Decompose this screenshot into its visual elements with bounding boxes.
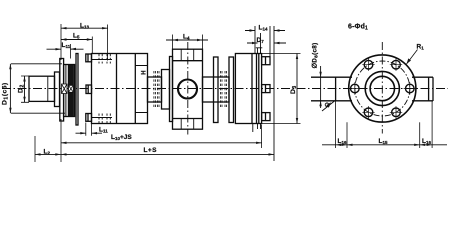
dimension D7	[247, 42, 286, 44]
flange pilot circle	[365, 71, 399, 105]
node yoke plate left	[170, 57, 173, 122]
node main body	[92, 54, 148, 124]
node collar left of yoke	[162, 70, 170, 110]
dimension D2	[24, 76, 26, 102]
bolt hole bottom-right	[392, 108, 401, 117]
bolt hole top-left	[364, 60, 373, 69]
svg-text:L15: L15	[379, 138, 388, 145]
flange bore circle	[370, 76, 394, 100]
bolt hole left	[351, 84, 360, 93]
node yoke ear right	[412, 77, 433, 101]
dimension L+S	[61, 153, 274, 155]
node joint circle	[178, 80, 197, 99]
dimension L2	[35, 153, 61, 155]
node flange pair cluster	[64, 65, 75, 117]
svg-text:L11: L11	[99, 127, 108, 134]
dimension L11 bottom	[76, 132, 103, 134]
bolt hole bottom-left	[364, 108, 373, 117]
node tall plate right	[229, 57, 234, 123]
svg-text:L10+JS: L10+JS	[111, 134, 132, 141]
node spline dashes right	[221, 71, 227, 107]
svg-text:H: H	[142, 70, 148, 74]
node hidden holes top	[99, 54, 110, 64]
node tube left	[148, 77, 162, 102]
svg-text:L16: L16	[338, 138, 347, 145]
wire disc bottom ticks	[253, 124, 261, 133]
node bolt top left	[86, 54, 92, 62]
node tube right	[203, 77, 230, 102]
bolt hole right	[406, 84, 415, 93]
svg-text:L5: L5	[73, 33, 80, 40]
node yoke plate right	[214, 57, 219, 123]
dimension L4	[166, 39, 208, 41]
svg-text:L11: L11	[62, 42, 71, 49]
wire flange vertical centerline	[381, 42, 383, 134]
node hidden holes bottom	[99, 114, 110, 124]
dimension L14	[245, 30, 285, 32]
dimension D1	[9, 64, 11, 113]
svg-text:D1(c6): D1(c6)	[2, 82, 10, 105]
dimension D3	[296, 54, 298, 124]
dimension L11	[47, 48, 84, 50]
svg-text:R1: R1	[417, 43, 425, 50]
node bolt mid right	[262, 85, 270, 93]
node step collar	[55, 72, 60, 107]
node bolt bottom right	[262, 113, 270, 121]
svg-text:∅D8(c8): ∅D8(c8)	[312, 42, 320, 68]
bolt hole top-right	[392, 60, 401, 69]
node flange plate E	[76, 54, 78, 126]
svg-text:L16: L16	[422, 138, 431, 145]
svg-text:D7: D7	[257, 37, 265, 44]
wire main horizontal centerline	[2, 88, 448, 90]
flange end view outer circle	[349, 55, 416, 122]
svg-text:6-Φd1: 6-Φd1	[348, 24, 368, 32]
node bolt bottom left	[86, 114, 92, 122]
node bolt top right	[262, 57, 270, 65]
svg-text:D2: D2	[18, 84, 26, 93]
node yoke block U1	[173, 49, 203, 129]
dimension L13	[61, 27, 108, 29]
dimension bottom flange	[322, 144, 447, 146]
dimension L10+JS	[61, 142, 262, 144]
node spline hatch left	[62, 84, 68, 94]
svg-text:L+S: L+S	[144, 147, 158, 154]
svg-text:D3: D3	[290, 85, 298, 94]
dimension L5	[61, 39, 92, 41]
node flange plate C	[60, 59, 64, 122]
dimension d8	[320, 66, 322, 108]
node bolt mid left	[86, 85, 92, 94]
flange bolt circle	[355, 61, 410, 116]
node bolt above disc	[256, 48, 262, 54]
wire joint vertical centerline	[187, 42, 189, 135]
leader R1	[407, 50, 418, 65]
node left shaft	[29, 76, 55, 101]
leader ear mark	[322, 101, 335, 111]
svg-text:L2: L2	[44, 149, 51, 156]
node yoke ear left	[311, 77, 352, 101]
node flange disc	[235, 54, 261, 124]
svg-text:L14: L14	[259, 25, 268, 32]
arrowheads	[9, 27, 432, 156]
svg-text:L13: L13	[80, 22, 89, 29]
node spline hatch right	[69, 85, 74, 92]
svg-text:L4: L4	[183, 34, 190, 41]
node spline dashes left	[154, 71, 159, 107]
